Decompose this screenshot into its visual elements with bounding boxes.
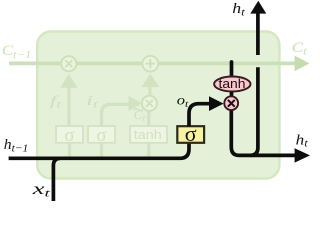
wire: cell state line C (faded) — [9, 62, 295, 66]
op: tanh oval (pink) — [214, 77, 250, 92]
svg-text:tanh: tanh — [134, 127, 162, 142]
wire: x3 down, elbow right, h_t output line to the right edge — [231, 111, 295, 156]
wire: x_t branch rising into h line — [53, 158, 60, 201]
node: pointwise multiply x1 on C line (faded) — [61, 56, 76, 71]
LSTM cell body (faded green rounded box) — [37, 32, 279, 179]
node: pointwise multiply x3 (o_t * tanh, pink highlighted) — [224, 96, 238, 110]
wire: h_{t-1} input line along bottom, elbow up into output sigma — [9, 143, 189, 158]
arrowhead C_t out (faded) — [295, 56, 310, 72]
wire: x2 up into + (faded) — [148, 86, 151, 96]
wire: f_t line up into x1 (faded) — [67, 87, 70, 127]
gate box: candidate tanh (faded) — [130, 126, 167, 143]
arrowhead h_t out right — [295, 148, 310, 162]
wire: stub below input gate (faded) — [100, 143, 103, 157]
wire: o_t path from sigma up, elbow right, arrow into x3 — [189, 104, 210, 127]
wire: i_t line curving into x2 (faded) — [102, 104, 130, 126]
wire: stub below tanh box (faded) — [147, 143, 150, 157]
arrowhead h_t out top — [250, 1, 266, 14]
svg-text:σ: σ — [96, 125, 106, 146]
svg-text:tanh: tanh — [219, 77, 246, 91]
node: pointwise multiply x2 (i_t * C~_t, faded) — [142, 96, 157, 111]
wire: tanh oval down to x3 — [230, 92, 234, 96]
wire: top segment above C line crossing, to top arrow — [256, 13, 260, 55]
wire: branch up from h_t line toward top — [250, 67, 258, 155]
svg-text:σ: σ — [64, 125, 74, 146]
wire: candidate line tanh box up into x2 (faded) — [147, 112, 150, 127]
node: pointwise add + on C line (faded) — [142, 56, 158, 72]
wire: stub below forget gate (faded) — [68, 143, 71, 157]
gate box: input gate sigma (faded) — [88, 126, 115, 143]
wire: branch from C line down to tanh oval — [230, 62, 234, 77]
gate box: forget gate sigma (faded) — [56, 126, 83, 143]
gate box: output gate sigma (highlighted yellow) — [177, 126, 204, 143]
